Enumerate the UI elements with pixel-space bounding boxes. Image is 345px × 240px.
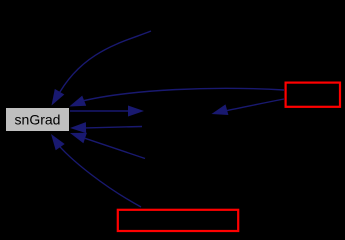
edge from top node to snGrad	[57, 31, 152, 98]
edge from snGrad to middle node	[69, 110, 132, 112]
edge from right box to snGrad	[78, 88, 284, 102]
node right red box (truncated caller)	[286, 83, 340, 107]
edge from lower node to snGrad	[85, 138, 145, 158]
edge from right box to middle node	[222, 99, 284, 112]
svg-text:snGrad: snGrad	[15, 112, 61, 128]
node snGrad	[6, 108, 70, 132]
node bottom red box (truncated caller)	[118, 210, 238, 231]
edge from bottom box to snGrad	[55, 141, 141, 207]
edge from middle node to snGrad	[86, 127, 142, 128]
